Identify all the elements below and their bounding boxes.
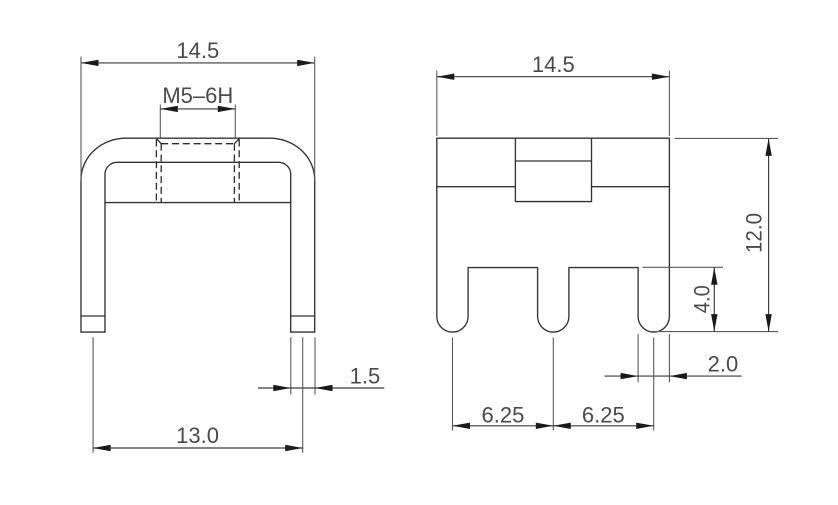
svg-text:2.0: 2.0 — [708, 351, 739, 376]
left leg bottom edge — [81, 331, 105, 333]
dim 2.0 arrow left — [621, 373, 639, 379]
thread boss inner line — [515, 160, 591, 162]
left view inner contour — [105, 162, 291, 332]
dim 14.5 left arrow left — [81, 60, 99, 66]
svg-text:14.5: 14.5 — [176, 38, 219, 63]
dim 14.5 right extension line right — [668, 71, 670, 137]
thread chamfer bottom hidden line — [161, 143, 234, 145]
dim 13.0 arrow right — [285, 445, 303, 451]
dim 14.5 left dimension line — [81, 62, 315, 64]
left view outer contour — [81, 138, 315, 332]
svg-text:13.0: 13.0 — [176, 423, 219, 448]
dim 4.0 arrow bottom — [711, 314, 717, 332]
right leg bottom edge — [291, 331, 315, 333]
thread minor diameter hidden line right — [233, 144, 235, 203]
dim 13.0 extension line right (right leg center) — [302, 337, 304, 453]
top web bottom line — [105, 202, 291, 204]
dim 4.0 dimension line — [713, 267, 715, 331]
dim M5-6H extension line right — [234, 105, 236, 139]
dim 12.0 arrow bottom — [765, 314, 771, 332]
dim 6.25 extension line right (right leg center) — [653, 338, 655, 431]
dim 1.5 extension line inner — [290, 337, 292, 394]
svg-text:6.25: 6.25 — [582, 403, 625, 428]
svg-text:M5–6H: M5–6H — [162, 83, 233, 108]
front face bend line left — [437, 186, 516, 188]
dim 13.0 dimension line — [93, 447, 303, 449]
svg-text:4.0: 4.0 — [689, 285, 714, 313]
dim 2.0 extension line left — [637, 334, 639, 382]
thread boss outline — [515, 138, 591, 201]
svg-text:14.5: 14.5 — [532, 52, 575, 77]
dim 14.5 left extension line right — [314, 57, 316, 182]
svg-text:12.0: 12.0 — [742, 213, 767, 253]
dim M5-6H arrow right — [218, 106, 236, 112]
dim 14.5 right extension line left — [436, 71, 438, 137]
dim 4.0 arrow top — [711, 267, 717, 285]
dim 13.0 extension line left (left leg center) — [92, 337, 94, 453]
dim 13.0 arrow left — [93, 445, 111, 451]
dim 1.5 dimension line — [258, 387, 384, 389]
dim M5-6H extension line left — [159, 105, 161, 139]
thread major diameter hidden line left — [155, 140, 157, 203]
front face bend line right — [592, 186, 670, 188]
dim 6.25 extension line middle (middle leg center) — [552, 338, 554, 431]
dim 6.25 extension line left (left leg center) — [452, 338, 454, 431]
right leg notch line — [291, 315, 315, 317]
dim 14.5 right arrow right — [652, 74, 670, 80]
svg-text:1.5: 1.5 — [350, 363, 381, 388]
dim 12.0 / 4.0 shared extension line bottom — [650, 331, 778, 333]
dim 2.0 extension line right — [668, 334, 670, 382]
dim M5-6H dimension line — [160, 108, 235, 110]
dim M5-6H arrow left — [160, 106, 178, 112]
left leg notch line — [81, 315, 105, 317]
dim 6.25 dimension line — [453, 425, 654, 427]
dim 14.5 right arrow left — [437, 74, 455, 80]
dim 4.0 extension line top — [642, 266, 723, 268]
thread minor diameter hidden line left — [160, 144, 162, 203]
dim 6.25 arrow far left — [453, 423, 471, 429]
dim 6.25 arrows middle pair — [536, 423, 571, 429]
dim 12.0 dimension line — [768, 138, 770, 331]
right view outline with three legs — [437, 138, 670, 332]
dim 14.5 left extension line left — [80, 57, 82, 182]
dim 2.0 dimension line — [605, 375, 742, 377]
dim 1.5 arrow right — [315, 385, 333, 391]
thread major diameter hidden line right — [238, 140, 240, 203]
thread hole left chamfer — [156, 139, 161, 144]
dim 1.5 arrow left — [273, 385, 291, 391]
dim 12.0 arrow top — [765, 138, 771, 156]
dim 6.25 arrow far right — [636, 423, 654, 429]
dim 2.0 arrow right — [669, 373, 687, 379]
dim 1.5 extension line outer — [314, 337, 316, 394]
dim 14.5 left arrow right — [297, 60, 315, 66]
thread hole right chamfer — [234, 139, 239, 144]
svg-text:6.25: 6.25 — [481, 403, 524, 428]
dim 14.5 right dimension line — [437, 76, 670, 78]
dim 12.0 extension line top — [675, 137, 779, 139]
